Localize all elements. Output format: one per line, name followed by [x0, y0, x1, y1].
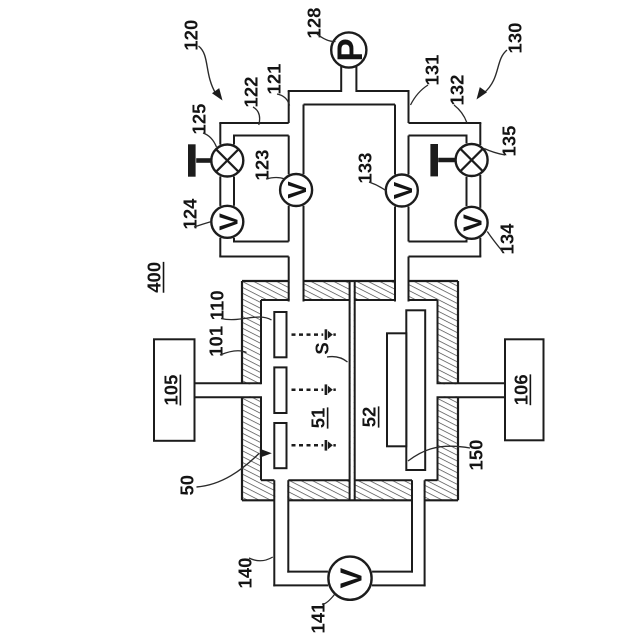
leader 110 [221, 317, 272, 320]
leader arrow from 120 [199, 46, 217, 94]
valve 125 T-handle [196, 158, 211, 163]
leader 133 [369, 182, 387, 191]
label 51 [308, 407, 329, 428]
wire: left branch left inner wall [233, 136, 235, 145]
svg-text:120: 120 [180, 20, 201, 51]
svg-text:141: 141 [308, 603, 329, 634]
valve V 123 [280, 174, 312, 206]
chamber outer top edge [242, 280, 289, 282]
leader 132 [454, 105, 467, 123]
hand valve 125 (circle with X) [211, 145, 243, 177]
gas source box 106 [505, 339, 544, 440]
label 130 [505, 23, 526, 54]
wire: main left pipe inner wall [303, 105, 305, 175]
svg-text:130: 130 [505, 23, 526, 54]
left compartment top edge [261, 299, 289, 301]
label 131 [422, 55, 443, 86]
gap: right main pipe through top wall [396, 278, 408, 303]
label 128 [303, 8, 324, 39]
label 400 [143, 262, 164, 293]
valve 135 T-handle [438, 158, 455, 163]
svg-text:135: 135 [499, 126, 520, 157]
valve V 124 [211, 206, 243, 238]
wire: right branch right outer wall [479, 123, 481, 145]
hand valve 135 (circle with X) [456, 144, 488, 176]
label S [312, 342, 333, 354]
svg-text:101: 101 [205, 326, 226, 357]
wire: main right pipe outer wall 131 [408, 91, 410, 123]
wire: right branch top outer 132 [409, 122, 482, 124]
wire: right branch right inner wall [466, 136, 468, 144]
label 122 [240, 77, 261, 108]
svg-text:P: P [331, 38, 370, 61]
svg-text:125: 125 [189, 104, 210, 135]
leader 128 [317, 34, 336, 42]
right compartment right edge [437, 300, 439, 383]
label 123 [252, 150, 273, 181]
leader 122 [253, 107, 260, 125]
wire: pipe from 105 to chamber [195, 382, 263, 384]
leader 150 [408, 446, 470, 461]
label 135 [499, 126, 520, 157]
leader S [327, 357, 348, 362]
slit plate segment 110-1 [274, 312, 286, 357]
svg-text:134: 134 [497, 223, 518, 255]
label 124 [180, 198, 201, 230]
wire: left branch bottom inner [233, 241, 289, 243]
svg-text:133: 133 [355, 153, 376, 184]
wire: left branch bottom outer [219, 256, 288, 258]
wire: pipe from chamber to 106 [437, 382, 506, 384]
leader 140 [249, 557, 273, 561]
partition gap strip [351, 282, 354, 499]
wire: main top pipe outer line 121-131 [288, 90, 342, 92]
wire: left branch top inner [233, 135, 289, 137]
leader 131 [411, 85, 429, 105]
label 120 [180, 20, 201, 51]
gas flow arrow 1 (dashed) [292, 333, 324, 336]
chamber outer right edge [457, 281, 459, 383]
svg-text:123: 123 [252, 150, 273, 181]
wire: pressure gauge stem [340, 64, 342, 92]
wire: left exhaust pipe outer wall [273, 480, 275, 586]
wire: bottom loop pipe bottom line [273, 584, 328, 586]
svg-text:122: 122 [240, 77, 261, 108]
chamber outer left edge [241, 281, 243, 383]
label 50 [177, 475, 198, 496]
svg-text:131: 131 [422, 55, 443, 86]
svg-text:106: 106 [510, 374, 531, 405]
svg-text:50: 50 [177, 475, 198, 496]
partition wall right line [354, 281, 356, 500]
right compartment bottom edge [355, 479, 412, 481]
gap: pipe 105 through left wall [239, 384, 264, 396]
gas flow arrow 3 (dashed) [292, 444, 324, 447]
wire: right exhaust pipe outer wall [424, 480, 426, 586]
leader 125 [203, 133, 217, 147]
svg-text:128: 128 [303, 8, 324, 39]
pressure gauge P 128 [331, 32, 366, 67]
svg-text:V: V [213, 212, 243, 230]
chamber 101 hatched wall body [242, 281, 458, 500]
svg-text:52: 52 [359, 407, 380, 428]
slit plate segment 110-3 [274, 423, 286, 468]
slit plate segment 110-2 [274, 367, 286, 413]
leader 124 [194, 222, 212, 228]
svg-text:V: V [458, 213, 488, 231]
leader 121 [277, 94, 290, 106]
leader 135 [484, 149, 505, 156]
leader arrow from 130 [484, 50, 507, 93]
left compartment left edge [260, 300, 262, 383]
label 121 [263, 64, 284, 95]
leader 123 [266, 178, 285, 180]
label 52 [359, 406, 380, 427]
wire: right branch bottom outer [409, 256, 482, 258]
valve V 141 [328, 557, 371, 600]
label 110 [206, 290, 227, 320]
wire: left branch top outer 122 [219, 122, 288, 124]
svg-text:V: V [388, 181, 418, 199]
svg-text:150: 150 [466, 440, 487, 471]
svg-text:51: 51 [308, 408, 329, 429]
svg-text:105: 105 [160, 375, 181, 406]
svg-text:140: 140 [235, 558, 256, 589]
wire: right branch top inner [409, 135, 468, 137]
partition wall left line [349, 281, 351, 500]
gap: left main pipe through top wall [290, 278, 303, 303]
wire: left branch left outer wall [219, 123, 221, 145]
label 132 [447, 75, 468, 106]
svg-text:S: S [312, 342, 333, 354]
label 125 [189, 104, 210, 135]
gap: left exhaust through bottom wall [275, 477, 287, 503]
wire: right branch bottom inner [409, 241, 468, 243]
label 150 [466, 440, 487, 471]
svg-text:V: V [334, 568, 369, 589]
leader 141 [322, 595, 335, 605]
valve V 134 [456, 207, 488, 239]
svg-text:121: 121 [263, 64, 284, 95]
svg-text:132: 132 [447, 75, 468, 106]
svg-text:124: 124 [180, 198, 201, 230]
left compartment interior [261, 300, 350, 480]
gas source box 105 [154, 339, 195, 441]
wire: main left pipe outer wall 121 [288, 91, 290, 123]
substrate 150 [387, 333, 406, 446]
wire: main top pipe inner line [304, 104, 396, 106]
wire: right exhaust pipe inner wall [411, 480, 413, 572]
gap: right exhaust through bottom wall [413, 477, 424, 503]
svg-text:400: 400 [143, 262, 164, 293]
left compartment bottom edge [261, 479, 274, 481]
label 141 [308, 603, 329, 634]
label 134 [497, 223, 518, 255]
right compartment top edge [355, 299, 395, 301]
leader 134 [487, 232, 503, 253]
svg-text:110: 110 [206, 290, 227, 320]
svg-text:V: V [282, 181, 312, 199]
wire: bottom loop pipe top line [287, 571, 328, 573]
label 101 [205, 326, 226, 357]
wire: main right pipe inner wall [394, 105, 396, 175]
valve V 133 [386, 175, 418, 207]
gap: pipe 106 through right wall [435, 384, 462, 396]
leader arrow from 50 [197, 454, 260, 488]
chamber outer bottom edge [242, 499, 274, 501]
leader 101 [220, 351, 247, 355]
label 133 [355, 153, 376, 184]
wire: left exhaust pipe inner wall [287, 480, 289, 572]
gas flow arrow 2 (dashed) [292, 388, 324, 391]
stage 52 electrode [406, 310, 425, 470]
label 140 [235, 558, 256, 589]
right compartment interior [355, 300, 438, 480]
